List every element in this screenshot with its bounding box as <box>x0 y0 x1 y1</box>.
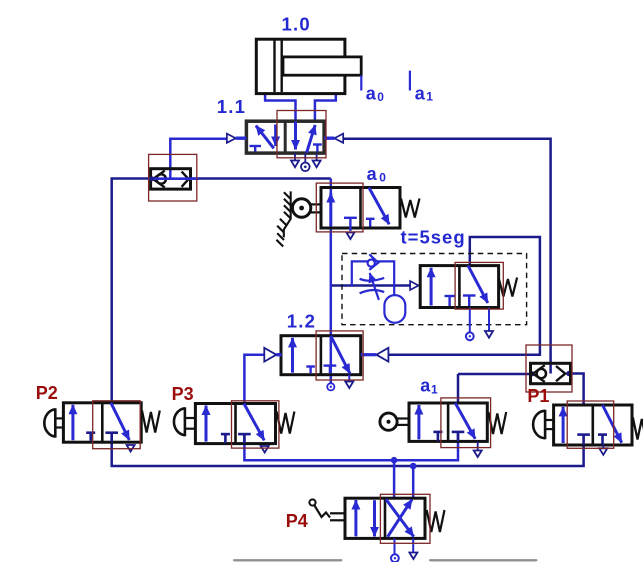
svg-text:t=5seg: t=5seg <box>401 226 466 247</box>
svg-text:1: 1 <box>431 383 438 397</box>
svg-text:a: a <box>366 83 377 103</box>
svg-text:1.0: 1.0 <box>282 13 311 34</box>
svg-text:P4: P4 <box>286 511 308 531</box>
svg-text:0: 0 <box>379 171 386 185</box>
svg-text:a: a <box>367 164 378 184</box>
svg-text:P3: P3 <box>172 384 194 404</box>
svg-text:1.2: 1.2 <box>287 311 316 332</box>
svg-text:P2: P2 <box>36 383 58 403</box>
svg-text:1: 1 <box>426 90 433 104</box>
svg-text:P1: P1 <box>527 386 549 406</box>
svg-text:1.1: 1.1 <box>217 96 246 117</box>
svg-text:0: 0 <box>377 90 384 104</box>
svg-text:a: a <box>420 376 431 396</box>
svg-text:a: a <box>415 83 426 103</box>
